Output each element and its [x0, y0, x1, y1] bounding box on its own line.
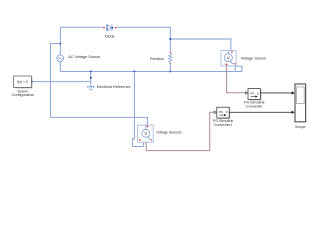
- node junction resistor bottom on rail: [169, 70, 171, 72]
- resistor bottom red port arrow: [170, 63, 172, 64]
- wire resistor bottom: [169, 65, 171, 72]
- wire ground stem: [90, 71, 92, 86]
- wire branch to voltage sensor plus: [170, 39, 231, 51]
- physical signal wire sensor1 to converter1: [146, 112, 213, 150]
- svg-text:Resistor: Resistor: [150, 57, 165, 61]
- svg-text:S: S: [226, 110, 228, 114]
- AC voltage source sine: [58, 57, 63, 59]
- solver configuration block shadow: [15, 77, 33, 88]
- scope block: [295, 84, 306, 122]
- svg-text:S: S: [257, 92, 259, 96]
- PS-Simulink converter block shadow: [249, 90, 261, 101]
- voltage sensor1 circle: [142, 129, 150, 137]
- voltage sensor box: [221, 51, 236, 66]
- signal wire converter1 to scope: [229, 111, 292, 113]
- diode cathode bar: [111, 24, 113, 31]
- voltage sensor1 hook red tip: [151, 140, 152, 141]
- PS-Simulink converter1 block: [217, 107, 229, 118]
- voltage sensor1 box: [138, 125, 154, 142]
- voltage sensor plus red marker: [231, 52, 233, 54]
- scope inner screen: [297, 87, 305, 104]
- wire left loop to voltage sensor1 plus: [50, 44, 147, 126]
- svg-text:Converter: Converter: [246, 104, 263, 108]
- solver configuration block: [14, 76, 32, 87]
- svg-text:PS: PS: [250, 92, 254, 96]
- PS-Simulink converter1 block shadow: [218, 108, 230, 119]
- svg-text:Electrical Reference: Electrical Reference: [97, 85, 131, 89]
- node junction solver on ground stem: [90, 77, 92, 79]
- diode right red port square: [115, 27, 116, 28]
- wire rail to voltage sensor1 minus: [132, 71, 143, 146]
- node junction ground on rail: [90, 70, 92, 72]
- svg-text:Converter1: Converter1: [214, 123, 233, 127]
- svg-text:Voltage Sensor: Voltage Sensor: [241, 57, 267, 61]
- wire top rail left (source top to diode): [60, 26, 103, 28]
- wire corner down to resistor: [169, 27, 171, 52]
- converter arrow line: [251, 96, 256, 98]
- voltage sensor minus red arrow: [226, 63, 229, 65]
- wire top rail right (diode to corner): [116, 26, 170, 28]
- voltage sensor1 circle stem: [145, 125, 147, 129]
- wire bottom rail: [60, 70, 242, 72]
- converter1 arrow line: [219, 114, 224, 116]
- AC voltage source circle: [57, 55, 64, 62]
- voltage sensor bottom hook: [231, 61, 235, 64]
- diode anode bar: [106, 24, 108, 31]
- svg-text:AC Voltage Source: AC Voltage Source: [68, 55, 100, 59]
- svg-text:Diode: Diode: [105, 34, 115, 38]
- svg-text:Voltage Sensor1: Voltage Sensor1: [156, 131, 182, 135]
- voltage sensor1 plus red marker: [146, 126, 148, 128]
- voltage sensor hook red tip: [235, 63, 236, 64]
- converter PS input port triangle: [245, 92, 247, 95]
- svg-text:Configuration: Configuration: [12, 93, 35, 97]
- diode cathode node dot: [112, 27, 114, 29]
- resistor top red port arrow: [170, 52, 172, 54]
- wire sensor minus stub: [234, 65, 236, 71]
- ground electrical reference symbol: [87, 86, 94, 88]
- diode triangle: [107, 25, 111, 31]
- solver port nub: [32, 81, 34, 83]
- wire AC source top stem: [59, 27, 61, 55]
- voltage sensor circle: [224, 54, 232, 62]
- wire solver configuration to ground node: [33, 81, 90, 83]
- svg-text:PS: PS: [219, 110, 223, 114]
- scope input arrow 2: [292, 111, 295, 114]
- physical signal wire sensor to converter: [227, 65, 245, 93]
- voltage sensor1 minus red arrow: [139, 139, 142, 141]
- voltage sensor circle stem: [227, 51, 229, 54]
- resistor zigzag: [169, 53, 172, 62]
- node junction sensor1 branch on rail: [133, 70, 135, 72]
- voltage sensor1 bottom hook: [148, 137, 151, 140]
- svg-text:Scope: Scope: [295, 125, 306, 129]
- svg-text:f(x) = 0: f(x) = 0: [17, 80, 28, 84]
- node junction resistor-top branch: [169, 38, 171, 40]
- wire rail end hook to sensor minus: [235, 66, 242, 71]
- converter1 PS input port triangle: [214, 111, 216, 114]
- wire AC source bottom stem: [59, 62, 61, 72]
- node junction AC source top: [59, 43, 61, 45]
- PS-Simulink converter block: [248, 89, 260, 100]
- diode D port arrow left: [103, 27, 105, 29]
- signal wire converter to scope: [260, 92, 291, 94]
- scope input arrow 1: [292, 91, 295, 94]
